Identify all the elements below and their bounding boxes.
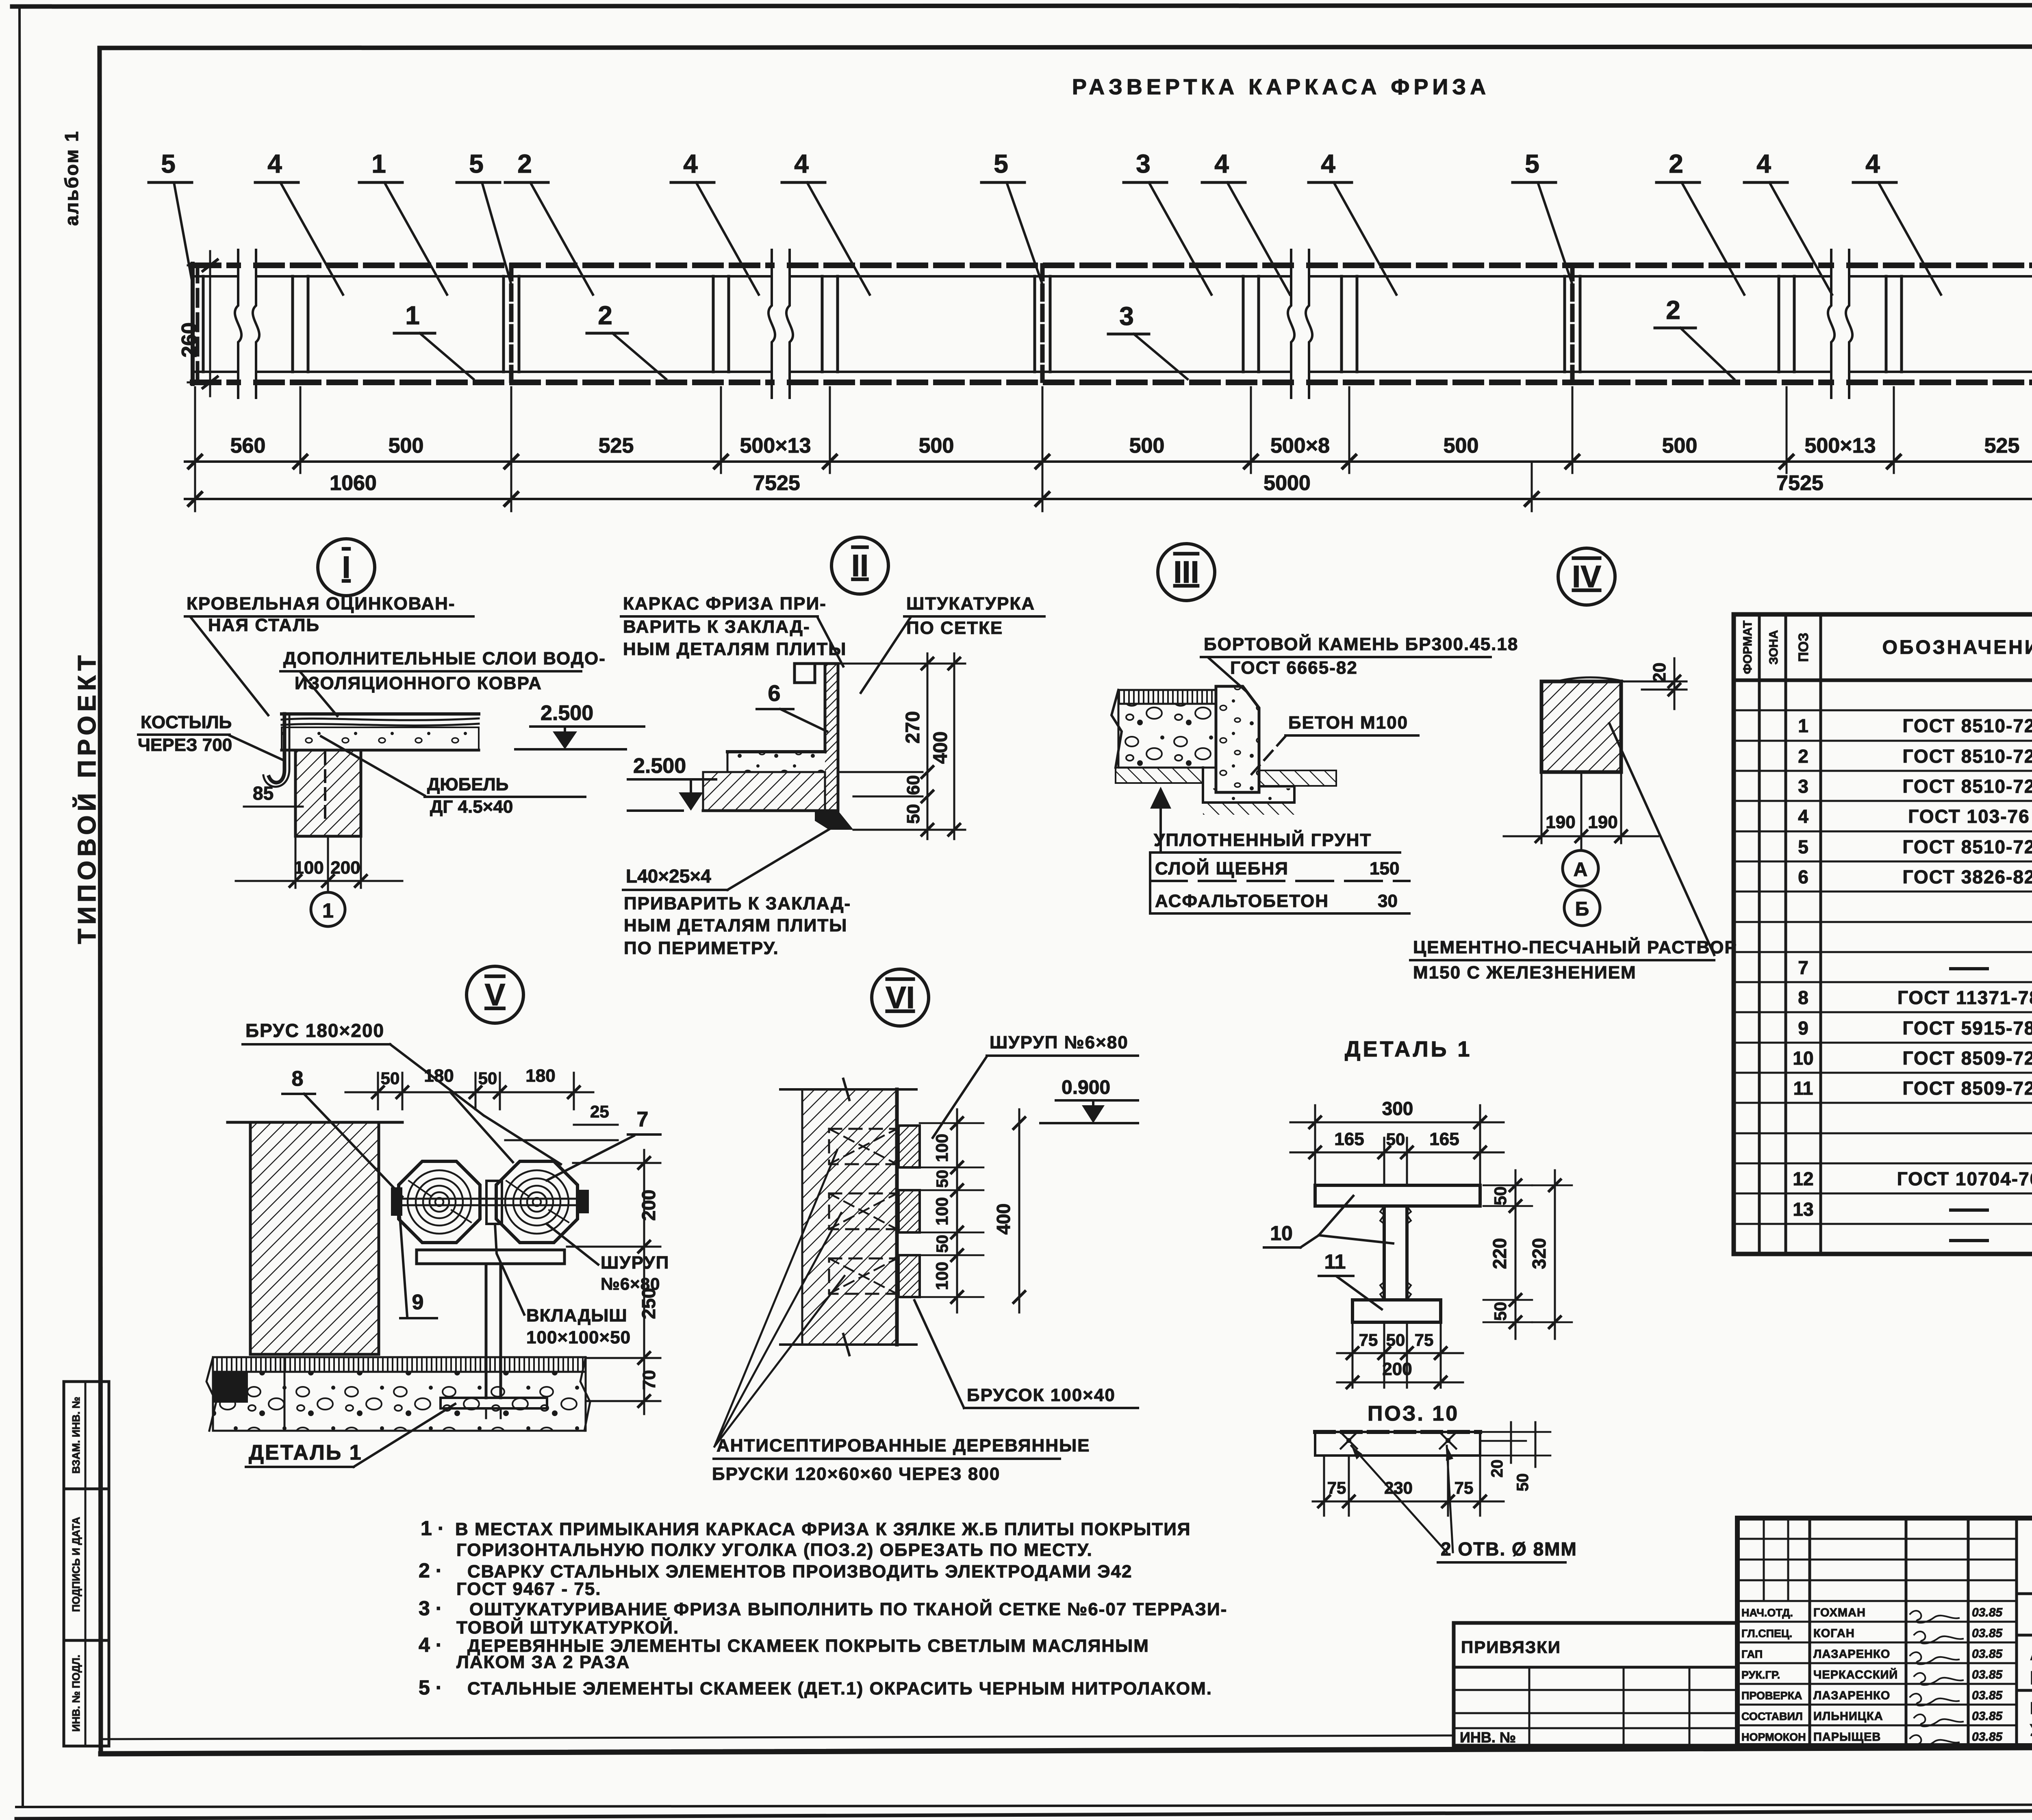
svg-text:IV: IV: [1572, 560, 1601, 594]
svg-text:9: 9: [412, 1291, 424, 1314]
svg-text:50: 50: [1386, 1330, 1405, 1349]
svg-text:50: 50: [1491, 1187, 1510, 1206]
svg-text:10: 10: [1270, 1222, 1293, 1245]
svg-text:5: 5: [1525, 149, 1539, 178]
svg-text:25: 25: [590, 1102, 609, 1121]
svg-text:ШУРУП: ШУРУП: [601, 1253, 669, 1273]
svg-text:5: 5: [994, 149, 1008, 178]
svg-text:2: 2: [598, 301, 612, 330]
svg-text:1: 1: [322, 899, 334, 922]
svg-text:ФОРМАТ: ФОРМАТ: [1741, 620, 1754, 674]
svg-text:12: 12: [1793, 1168, 1813, 1189]
svg-text:50: 50: [1514, 1473, 1532, 1492]
svg-text:165: 165: [1429, 1129, 1459, 1149]
svg-text:АНТИСЕПТИРОВАННЫЕ ДЕРЕВЯННЫЕ: АНТИСЕПТИРОВАННЫЕ ДЕРЕВЯННЫЕ: [716, 1436, 1090, 1456]
svg-text:4: 4: [1865, 149, 1880, 178]
svg-text:2: 2: [1798, 746, 1808, 767]
svg-text:50: 50: [903, 804, 923, 824]
svg-text:11: 11: [1793, 1078, 1813, 1099]
svg-text:560: 560: [230, 434, 266, 458]
svg-text:150: 150: [1370, 859, 1399, 879]
svg-text:ИНВ. №: ИНВ. №: [1460, 1729, 1516, 1746]
svg-text:СТАЛЬНЫЕ ЭЛЕМЕНТЫ СКАМЕЕК (Д: СТАЛЬНЫЕ ЭЛЕМЕНТЫ СКАМЕЕК (ДЕТ.1) ОКРАСИ…: [467, 1679, 1212, 1699]
svg-text:УПЛОТНЕННЫЙ ГРУНТ: УПЛОТНЕННЫЙ ГРУНТ: [1154, 829, 1372, 850]
svg-text:ЛАКОМ ЗА 2 РАЗА: ЛАКОМ ЗА 2 РАЗА: [456, 1652, 630, 1672]
svg-text:УЗЛЫ I ÷ VI , ДЕТАЛЬ 1.: УЗЛЫ I ÷ VI , ДЕТАЛЬ 1.: [2030, 1720, 2032, 1740]
svg-text:03.85: 03.85: [1972, 1709, 2003, 1723]
svg-text:НА 15 ЧЕЛОВЕК: НА 15 ЧЕЛОВЕК: [2030, 1667, 2032, 1688]
svg-text:ВЗАМ. ИНВ. №: ВЗАМ. ИНВ. №: [70, 1397, 82, 1473]
svg-text:85: 85: [253, 783, 274, 804]
svg-text:ГОРИЗОНТАЛЬНУЮ ПОЛКУ УГОЛКА (П: ГОРИЗОНТАЛЬНУЮ ПОЛКУ УГОЛКА (ПОЗ.2) ОБРЕ…: [456, 1540, 1093, 1560]
svg-text:03.85: 03.85: [1972, 1647, 2003, 1661]
svg-text:2.500: 2.500: [633, 754, 686, 778]
svg-text:320: 320: [1528, 1238, 1550, 1269]
svg-text:4: 4: [683, 149, 698, 178]
svg-text:2: 2: [1669, 149, 1683, 178]
svg-text:180: 180: [525, 1066, 555, 1086]
svg-text:ДОПОЛНИТЕЛЬНЫЕ СЛОИ ВОДО-: ДОПОЛНИТЕЛЬНЫЕ СЛОИ ВОДО-: [283, 649, 606, 668]
svg-text:200: 200: [330, 858, 360, 878]
svg-text:ГОСТ 9467 - 75.: ГОСТ 9467 - 75.: [456, 1579, 601, 1599]
svg-text:2.500: 2.500: [541, 701, 593, 725]
svg-text:9: 9: [1798, 1017, 1808, 1039]
svg-text:6: 6: [1798, 866, 1808, 887]
svg-text:КОСТЫЛЬ: КОСТЫЛЬ: [141, 712, 232, 732]
svg-text:НЫМ ДЕТАЛЯМ ПЛИТЫ: НЫМ ДЕТАЛЯМ ПЛИТЫ: [623, 639, 847, 659]
svg-text:ГАП: ГАП: [1741, 1648, 1763, 1660]
svg-text:ПОЗ: ПОЗ: [1796, 633, 1811, 662]
svg-text:4: 4: [267, 149, 282, 178]
svg-text:ГОСТ 8510-72: ГОСТ 8510-72: [1902, 836, 2032, 857]
svg-text:КАРКАС ФРИЗА ПРИ-: КАРКАС ФРИЗА ПРИ-: [623, 594, 827, 614]
svg-text:100: 100: [932, 1262, 951, 1290]
svg-text:50: 50: [1491, 1302, 1510, 1321]
svg-text:ВАРИТЬ К ЗАКЛАД-: ВАРИТЬ К ЗАКЛАД-: [623, 617, 810, 637]
svg-text:ГОСТ 8510-72: ГОСТ 8510-72: [1902, 746, 2032, 767]
svg-text:4: 4: [1321, 149, 1335, 178]
svg-text:НОРМОКОН: НОРМОКОН: [1741, 1731, 1806, 1743]
svg-text:03.85: 03.85: [1972, 1689, 2003, 1702]
svg-text:ШУРУП №6×80: ШУРУП №6×80: [990, 1033, 1129, 1052]
svg-text:5: 5: [161, 149, 176, 178]
svg-text:РАЗВЕРТКА КАРКАСА ФРИЗА: РАЗВЕРТКА КАРКАСА ФРИЗА: [1072, 75, 1490, 99]
svg-text:НАЧ.ОТД.: НАЧ.ОТД.: [1741, 1607, 1793, 1619]
svg-text:70: 70: [639, 1370, 659, 1390]
svg-text:ПРИВЯЗКИ: ПРИВЯЗКИ: [1461, 1638, 1561, 1657]
svg-text:190: 190: [1546, 812, 1575, 832]
svg-text:III: III: [1173, 555, 1199, 590]
svg-text:СЛОЙ ЩЕБНЯ: СЛОЙ ЩЕБНЯ: [1155, 858, 1289, 879]
svg-text:50: 50: [478, 1069, 497, 1088]
svg-text:190: 190: [1588, 812, 1617, 832]
svg-text:100: 100: [932, 1134, 951, 1162]
svg-text:ГЛ.СПЕЦ.: ГЛ.СПЕЦ.: [1741, 1627, 1792, 1640]
svg-text:ШТУКАТУРКА: ШТУКАТУРКА: [906, 594, 1035, 614]
svg-text:100: 100: [294, 858, 323, 878]
svg-text:50: 50: [381, 1069, 400, 1088]
svg-text:3: 3: [1798, 776, 1808, 797]
svg-text:500×13: 500×13: [1805, 434, 1876, 458]
svg-text:50: 50: [934, 1170, 951, 1188]
svg-text:5: 5: [469, 149, 484, 178]
svg-text:1 ·: 1 ·: [421, 1517, 444, 1540]
svg-text:8: 8: [1798, 987, 1808, 1008]
svg-text:БРУС 180×200: БРУС 180×200: [245, 1020, 384, 1041]
svg-text:400: 400: [930, 731, 951, 764]
svg-text:ТИПОВОЙ ПРОЕКТ: ТИПОВОЙ ПРОЕКТ: [73, 651, 101, 944]
svg-text:5: 5: [1798, 836, 1808, 857]
svg-text:ГОСТ 3826-82: ГОСТ 3826-82: [1902, 866, 2032, 887]
svg-text:200: 200: [638, 1190, 659, 1221]
svg-text:7: 7: [637, 1108, 649, 1131]
svg-text:ЛАЗАРЕНКО: ЛАЗАРЕНКО: [1813, 1648, 1890, 1661]
svg-text:500: 500: [1662, 434, 1698, 458]
svg-text:165: 165: [1334, 1129, 1364, 1149]
svg-text:ГОСТ 11371-78: ГОСТ 11371-78: [1897, 987, 2032, 1008]
svg-text:525: 525: [599, 434, 634, 458]
svg-text:ЗОНА: ЗОНА: [1767, 630, 1780, 664]
svg-text:ПОДПИСЬ И ДАТА: ПОДПИСЬ И ДАТА: [70, 1517, 82, 1612]
svg-text:ГОСТ 5915-78: ГОСТ 5915-78: [1902, 1017, 2032, 1039]
svg-text:525: 525: [1984, 434, 2020, 458]
svg-text:М150 С ЖЕЛЕЗНЕНИЕМ: М150 С ЖЕЛЕЗНЕНИЕМ: [1413, 963, 1637, 983]
svg-text:ОБОЗНАЧЕНИЕ: ОБОЗНАЧЕНИЕ: [1882, 637, 2032, 658]
svg-text:II: II: [851, 549, 868, 583]
svg-text:100: 100: [932, 1197, 951, 1226]
svg-text:4: 4: [1756, 149, 1771, 178]
svg-text:КРОВЕЛЬНАЯ ОЦИНКОВАН-: КРОВЕЛЬНАЯ ОЦИНКОВАН-: [187, 594, 456, 614]
svg-text:А: А: [1574, 859, 1588, 881]
svg-text:50: 50: [1386, 1130, 1405, 1149]
svg-text:БОРТОВОЙ КАМЕНЬ БР300.45.18: БОРТОВОЙ КАМЕНЬ БР300.45.18: [1204, 633, 1518, 654]
svg-text:500: 500: [1444, 434, 1479, 458]
svg-text:75: 75: [1455, 1478, 1474, 1497]
svg-text:3: 3: [1119, 302, 1134, 331]
svg-text:ГОСТ 8509-72: ГОСТ 8509-72: [1902, 1048, 2032, 1069]
svg-text:ОШТУКАТУРИВАНИЕ ФРИЗА ВЫПОЛНИТ: ОШТУКАТУРИВАНИЕ ФРИЗА ВЫПОЛНИТЬ ПО ТКАНО…: [469, 1599, 1227, 1619]
svg-text:3 ·: 3 ·: [419, 1597, 442, 1620]
svg-text:4: 4: [794, 149, 809, 178]
svg-text:8: 8: [292, 1067, 304, 1091]
svg-text:03.85: 03.85: [1972, 1730, 2003, 1744]
svg-text:ИЛЬНИЦКА: ИЛЬНИЦКА: [1813, 1710, 1883, 1723]
svg-text:75: 75: [1359, 1330, 1378, 1349]
svg-text:ДЕТАЛЬ 1: ДЕТАЛЬ 1: [1345, 1037, 1472, 1061]
svg-text:НЫМ ДЕТАЛЯМ ПЛИТЫ: НЫМ ДЕТАЛЯМ ПЛИТЫ: [624, 915, 847, 935]
svg-text:V: V: [485, 978, 506, 1012]
svg-text:2: 2: [517, 149, 532, 178]
svg-text:11: 11: [1324, 1250, 1346, 1273]
svg-text:ПРОВЕРКА: ПРОВЕРКА: [1741, 1690, 1802, 1702]
svg-text:ДЮБЕЛЬ: ДЮБЕЛЬ: [427, 774, 508, 794]
svg-text:ГОСТ 8510-72: ГОСТ 8510-72: [1902, 715, 2032, 736]
svg-text:ЧЕРКАССКИЙ: ЧЕРКАССКИЙ: [1813, 1668, 1898, 1681]
svg-text:Б: Б: [1575, 898, 1589, 920]
svg-text:ЧЕРЕЗ 700: ЧЕРЕЗ 700: [138, 735, 232, 755]
svg-text:В МЕСТАХ ПРИМЫКАНИЯ КАРКАСА Ф: В МЕСТАХ ПРИМЫКАНИЯ КАРКАСА ФРИЗА К ЗЯЛК…: [455, 1519, 1191, 1539]
svg-text:L40×25×4: L40×25×4: [626, 866, 711, 887]
svg-text:1060: 1060: [330, 471, 377, 495]
svg-text:РАЗВЕРТКА КАРКАСА ФРИЗА,: РАЗВЕРТКА КАРКАСА ФРИЗА,: [2030, 1699, 2032, 1718]
svg-text:20: 20: [1650, 663, 1669, 683]
svg-text:1: 1: [1798, 715, 1808, 736]
svg-text:ПРИВАРИТЬ К ЗАКЛАД-: ПРИВАРИТЬ К ЗАКЛАД-: [624, 894, 851, 913]
svg-text:2: 2: [1666, 295, 1680, 325]
svg-text:03.85: 03.85: [1972, 1606, 2003, 1619]
svg-text:75: 75: [1327, 1478, 1346, 1497]
svg-text:ЛАЗАРЕНКО: ЛАЗАРЕНКО: [1813, 1689, 1890, 1702]
svg-text:БРУСОК 100×40: БРУСОК 100×40: [967, 1385, 1116, 1405]
svg-text:500×13: 500×13: [740, 434, 811, 458]
svg-text:0.900: 0.900: [1062, 1077, 1110, 1098]
svg-text:ГОСТ 10704-76: ГОСТ 10704-76: [1897, 1168, 2032, 1189]
svg-text:100×100×50: 100×100×50: [526, 1328, 631, 1347]
svg-text:20: 20: [1488, 1460, 1506, 1478]
svg-text:220: 220: [1489, 1238, 1510, 1269]
svg-text:НАЯ СТАЛЬ: НАЯ СТАЛЬ: [208, 615, 320, 635]
svg-text:6: 6: [768, 680, 780, 706]
svg-text:60: 60: [903, 775, 923, 795]
svg-text:1: 1: [405, 301, 420, 330]
svg-text:3: 3: [1136, 149, 1151, 178]
svg-text:4: 4: [1798, 806, 1808, 827]
svg-text:СВАРКУ СТАЛЬНЫХ ЭЛЕМЕНТОВ ПР: СВАРКУ СТАЛЬНЫХ ЭЛЕМЕНТОВ ПРОИЗВОДИТЬ ЭЛ…: [467, 1562, 1132, 1581]
svg-text:200: 200: [1382, 1359, 1412, 1379]
svg-text:СОСТАВИЛ: СОСТАВИЛ: [1741, 1710, 1803, 1722]
svg-text:ГОСТ 8510-72: ГОСТ 8510-72: [1902, 776, 2032, 797]
svg-text:БЕТОН М100: БЕТОН М100: [1288, 713, 1408, 733]
svg-text:ИНВ. № ПОДЛ.: ИНВ. № ПОДЛ.: [70, 1655, 82, 1731]
svg-text:13: 13: [1793, 1199, 1813, 1220]
svg-text:300: 300: [1382, 1098, 1413, 1119]
svg-text:400: 400: [993, 1204, 1014, 1235]
svg-text:ГОСТ 6665-82: ГОСТ 6665-82: [1230, 658, 1358, 678]
svg-text:4: 4: [1214, 149, 1229, 178]
svg-text:03.85: 03.85: [1972, 1668, 2003, 1681]
svg-text:30: 30: [1378, 891, 1398, 911]
svg-text:ПО СЕТКЕ: ПО СЕТКЕ: [906, 618, 1003, 638]
svg-text:ГОХМАН: ГОХМАН: [1813, 1606, 1866, 1619]
svg-text:500: 500: [389, 434, 424, 458]
svg-text:7525: 7525: [1776, 471, 1824, 495]
svg-text:7: 7: [1798, 957, 1808, 978]
svg-text:5 ·: 5 ·: [419, 1676, 442, 1699]
svg-text:ВКЛАДЫШ: ВКЛАДЫШ: [526, 1306, 627, 1325]
svg-text:ПАРЫЩЕВ: ПАРЫЩЕВ: [1813, 1731, 1881, 1744]
svg-text:260: 260: [178, 322, 201, 358]
svg-text:VI: VI: [886, 981, 915, 1015]
svg-text:03.85: 03.85: [1972, 1627, 2003, 1640]
svg-text:ПОЗ. 10: ПОЗ. 10: [1368, 1402, 1459, 1425]
svg-text:7525: 7525: [753, 471, 800, 495]
svg-text:5000: 5000: [1263, 471, 1311, 495]
svg-text:КОГАН: КОГАН: [1813, 1627, 1855, 1640]
svg-text:АСФАЛЬТОБЕТОН: АСФАЛЬТОБЕТОН: [1155, 891, 1329, 911]
svg-text:500: 500: [919, 434, 954, 458]
svg-text:ГОСТ 8509-72: ГОСТ 8509-72: [1902, 1078, 2032, 1099]
svg-text:ГОСТ 103-76: ГОСТ 103-76: [1908, 806, 2030, 827]
svg-text:ПО ПЕРИМЕТРУ.: ПО ПЕРИМЕТРУ.: [624, 938, 779, 958]
svg-text:ДГ 4.5×40: ДГ 4.5×40: [430, 797, 513, 817]
svg-text:10: 10: [1793, 1048, 1813, 1069]
svg-text:4 ·: 4 ·: [419, 1633, 442, 1656]
svg-text:50: 50: [934, 1235, 951, 1253]
svg-text:ТОВОЙ ШТУКАТУРКОЙ.: ТОВОЙ ШТУКАТУРКОЙ.: [456, 1617, 679, 1638]
svg-text:ЦЕМЕНТНО-ПЕСЧАНЫЙ РАСТВОР: ЦЕМЕНТНО-ПЕСЧАНЫЙ РАСТВОР: [1413, 937, 1737, 957]
svg-text:1: 1: [371, 149, 386, 178]
svg-text:500: 500: [1129, 434, 1165, 458]
svg-text:РУК.ГР.: РУК.ГР.: [1741, 1669, 1780, 1681]
svg-text:2 ·: 2 ·: [419, 1559, 442, 1582]
svg-text:альбом 1: альбом 1: [61, 130, 82, 226]
svg-text:БРУСКИ 120×60×60 ЧЕРЕЗ 800: БРУСКИ 120×60×60 ЧЕРЕЗ 800: [712, 1464, 1000, 1484]
svg-text:180: 180: [424, 1066, 454, 1086]
svg-text:2 ОТВ. Ø 8ММ: 2 ОТВ. Ø 8ММ: [1441, 1538, 1577, 1560]
svg-text:500×8: 500×8: [1270, 434, 1330, 458]
svg-text:75: 75: [1415, 1330, 1434, 1349]
svg-text:270: 270: [902, 711, 924, 744]
svg-text:I: I: [342, 550, 350, 585]
svg-text:ИЗОЛЯЦИОННОГО КОВРА: ИЗОЛЯЦИОННОГО КОВРА: [295, 673, 542, 693]
svg-text:АВТОПАВИЛЬОН ТИП 2/: АВТОПАВИЛЬОН ТИП 2/: [2030, 1643, 2032, 1664]
svg-text:250: 250: [638, 1288, 659, 1319]
svg-text:ДЕТАЛЬ 1: ДЕТАЛЬ 1: [249, 1441, 363, 1464]
